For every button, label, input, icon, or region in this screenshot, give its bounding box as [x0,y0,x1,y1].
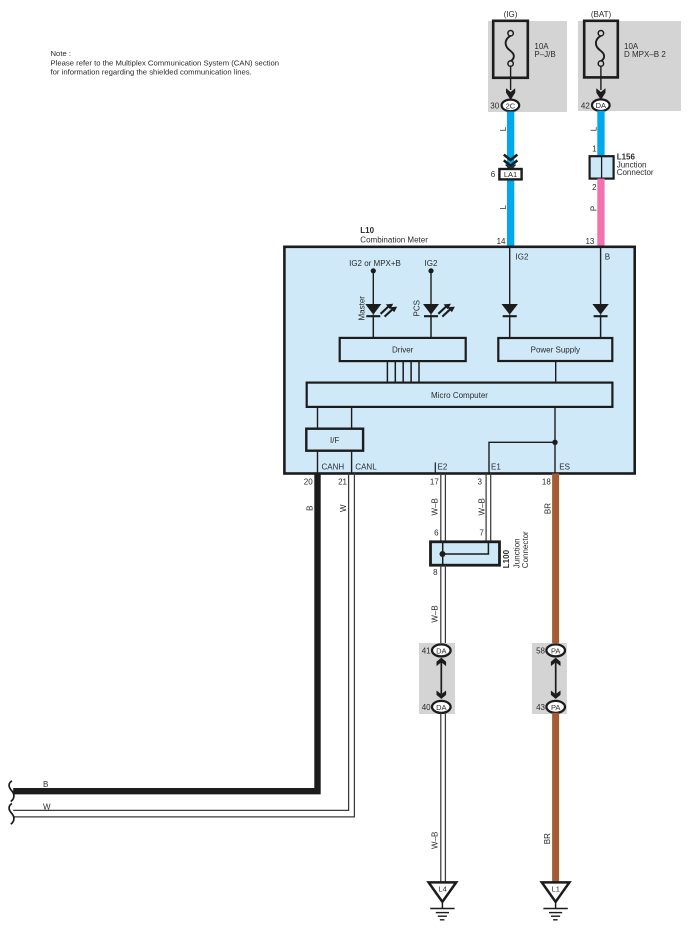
inter-connector arrows [551,658,561,699]
wire to Master LED [372,271,374,304]
svg-text:Please refer to the Multiplex: Please refer to the Multiplex Communicat… [51,58,280,67]
svg-text:W–B: W–B [431,605,440,622]
connector pin 58 PA [536,644,565,656]
fuse F2 10A D MPX-B 2 [584,21,618,78]
svg-text:30: 30 [490,102,499,111]
svg-text:W: W [43,802,51,811]
internal wire pin 14 IG2 [509,248,511,304]
wire fuse output to pin 42 [596,66,605,100]
fuse F1 10A P-J/B [493,21,528,78]
diode D2 [592,304,608,339]
junction connector L100 [431,542,500,565]
connector pin 43 PA [536,701,565,713]
fuse block D MPX-B 2 (BAT) background [578,21,681,111]
wire W-B (double) L100 pin 8 to 41 DA [441,565,446,645]
wire P (pink) from L156 pin 2 to pin 13 [597,179,604,247]
wire fuse output to pin 30 [506,66,515,100]
ground L1 [542,882,570,919]
svg-text:7: 7 [479,528,484,537]
svg-text:PA: PA [551,646,560,655]
label L156 Junction Connector [617,153,654,178]
svg-text:IG2: IG2 [516,252,529,261]
connector block PA background [532,643,567,714]
wires Micro Computer to I/F [318,407,352,429]
svg-text:14: 14 [497,237,506,246]
svg-text:40: 40 [422,703,431,712]
connector LA1 pin 6 [491,169,522,179]
connector pin 30 2C [490,100,519,112]
svg-text:2: 2 [592,183,597,192]
svg-text:3: 3 [478,477,483,486]
svg-text:W–B: W–B [431,832,440,849]
wire E2 W-B (double) meter to L100 pin 6 [441,474,446,542]
svg-text:42: 42 [581,101,590,110]
wire Power Supply to Micro Computer [555,361,557,383]
svg-text:13: 13 [585,237,594,246]
node dot [428,268,433,273]
svg-text:LA1: LA1 [504,170,517,179]
inter-connector arrows [437,658,447,699]
wire E1 W-B (double) meter to L100 pin 7 [486,474,491,542]
svg-text:CANL: CANL [355,463,377,472]
svg-text:L1: L1 [552,885,560,894]
shielded-pair chevron marker [504,155,518,169]
block Micro Computer [307,383,613,407]
svg-text:B: B [605,252,610,261]
wire to PCS LED [430,271,432,304]
svg-text:IG2: IG2 [425,259,438,268]
wire CANL W (white/double) with left turn [13,474,354,817]
svg-text:E2: E2 [438,463,448,472]
wires I/F to CANH CANL pins [318,451,352,473]
svg-text:P–J/B: P–J/B [534,50,555,59]
value label 10A D MPX-B 2 [624,42,666,59]
svg-text:21: 21 [338,477,347,486]
svg-text:E1: E1 [491,463,501,472]
block I/F [306,429,363,451]
LED PCS [423,304,455,339]
svg-text:I/F: I/F [330,436,339,445]
pin divider tick E2 [434,463,436,474]
svg-text:Note :: Note : [51,49,72,58]
svg-text:2C: 2C [506,101,516,110]
svg-text:Combination Meter: Combination Meter [360,235,428,244]
svg-text:D MPX–B 2: D MPX–B 2 [624,50,666,59]
internal wire pin 13 B [600,248,602,304]
fuse block P-J/B (IG) background [488,21,567,112]
svg-text:W–B: W–B [431,498,440,515]
wire L (blue) from DA to L156 pin 1 [597,111,604,157]
svg-text:(IG): (IG) [504,10,518,19]
connector block DA background [419,643,455,714]
svg-text:Micro Computer: Micro Computer [431,391,488,400]
svg-text:L: L [589,126,598,131]
svg-text:L4: L4 [438,885,446,894]
svg-text:BR: BR [543,503,552,514]
svg-text:PA: PA [551,703,560,712]
svg-text:DA: DA [436,646,446,655]
svg-text:IG2 or MPX+B: IG2 or MPX+B [349,259,401,268]
svg-text:20: 20 [304,477,313,486]
LED Master [365,304,397,339]
internal wire E1 branch [489,442,555,473]
svg-text:8: 8 [433,568,438,577]
value label 10A P-J/B [534,42,555,59]
wire BR (brown) 43 PA to ground L1 [552,713,559,882]
label L10 Combination Meter [360,226,428,244]
svg-text:B: B [43,780,48,789]
continuation break mark [9,803,14,824]
internal wire Micro Computer to ES [554,407,556,473]
svg-text:Power Supply: Power Supply [531,345,580,354]
svg-text:Connector: Connector [521,531,530,568]
svg-text:PCS: PCS [412,300,421,316]
note text [51,49,280,77]
svg-text:CANH: CANH [322,463,345,472]
svg-text:17: 17 [430,477,439,486]
connector pin 42 DA [581,99,610,111]
svg-text:41: 41 [422,646,431,655]
svg-text:6: 6 [491,170,496,179]
connector pin 40 DA [422,701,451,713]
svg-text:DA: DA [436,703,446,712]
bus wires Driver to Micro Computer [387,361,419,383]
svg-text:BR: BR [543,833,552,844]
svg-text:DA: DA [596,101,606,110]
ECU box L10 Combination Meter [284,247,634,474]
svg-text:W: W [339,504,348,512]
svg-text:Connector: Connector [617,168,654,177]
diode D1 [502,304,518,339]
wire W-B (double) 40 DA to ground L4 [441,713,446,882]
svg-text:L10: L10 [360,226,374,235]
svg-text:L: L [499,204,508,209]
junction connector L156 [590,156,614,178]
wire ES BR (brown) meter to 58 PA [552,474,559,645]
svg-text:L100: L100 [502,549,511,568]
continuation break mark [9,781,14,802]
label L100 Junction Connector [502,531,530,568]
svg-text:for information regarding the: for information regarding the shielded c… [51,68,252,77]
svg-text:1: 1 [592,144,597,153]
wire L (blue) from 2C to pin 14 [507,112,514,247]
wire CANH B (black) with left turn [13,474,317,792]
svg-text:(BAT): (BAT) [591,10,612,19]
block Power Supply [498,338,612,361]
svg-text:P: P [589,206,598,211]
ground L4 [429,882,457,919]
svg-text:W–B: W–B [477,498,486,515]
svg-text:Driver: Driver [392,345,414,354]
node dot [371,268,376,273]
svg-text:58: 58 [536,646,545,655]
svg-text:Master: Master [357,296,366,321]
node junction dot ES/E1 [552,440,557,445]
svg-text:B: B [306,506,315,511]
svg-text:43: 43 [536,703,545,712]
svg-text:ES: ES [559,463,570,472]
block Driver [340,338,466,361]
svg-text:L: L [499,126,508,131]
svg-text:18: 18 [542,477,551,486]
svg-text:6: 6 [434,528,439,537]
connector pin 41 DA [422,644,451,656]
